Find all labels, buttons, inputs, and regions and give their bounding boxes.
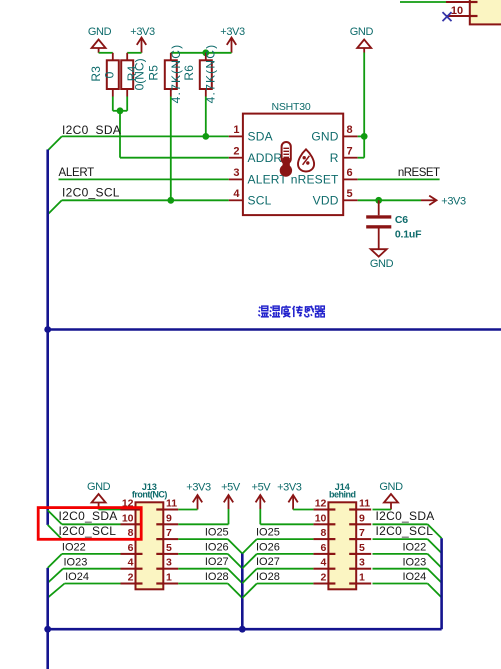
pin 5 VDD (right): [313, 188, 358, 208]
svg-text:11: 11: [166, 498, 177, 510]
svg-text:1: 1: [166, 572, 172, 584]
wire to top-right connector pin: [400, 1, 470, 3]
svg-text:10: 10: [451, 5, 463, 17]
svg-text:+5V: +5V: [252, 482, 272, 494]
bus vertical (left, lower): [46, 568, 49, 669]
svg-text:8: 8: [321, 527, 327, 539]
pin 2 ADDR (left): [229, 146, 283, 166]
wire IO24 J14 to right bus: [373, 584, 442, 598]
svg-text:C6: C6: [395, 214, 408, 226]
svg-text:IO22: IO22: [62, 542, 86, 554]
wire I2C0_SDA J14 to right bus: [373, 524, 442, 538]
note text 温湿度传感器: [258, 306, 325, 318]
power GND (top left, above R3): [88, 26, 112, 53]
svg-text:8: 8: [128, 527, 134, 539]
svg-text:+3V3: +3V3: [441, 196, 466, 208]
svg-text:IO27: IO27: [256, 556, 280, 568]
svg-text:1: 1: [359, 572, 365, 584]
junction R6 top: [202, 49, 209, 56]
wire I2C0_SCL to SCL pin 4: [48, 200, 229, 214]
wire IO26 J14 to center bus: [242, 554, 313, 569]
svg-text:2: 2: [128, 572, 134, 584]
svg-text:IO25: IO25: [256, 527, 280, 539]
svg-text:ADDR: ADDR: [248, 151, 283, 165]
svg-text:SCL: SCL: [248, 194, 272, 208]
svg-text:0(NC): 0(NC): [132, 58, 146, 90]
svg-text:+3V3: +3V3: [130, 26, 155, 38]
svg-text:NSHT30: NSHT30: [271, 101, 310, 113]
bus vertical (right): [440, 538, 443, 629]
svg-text:VDD: VDD: [313, 194, 339, 208]
svg-text:I2C0_SCL: I2C0_SCL: [62, 186, 120, 200]
wire I2C0_SDA to J13 pin 10: [48, 510, 121, 524]
svg-text:R: R: [330, 151, 339, 165]
svg-text:4: 4: [233, 188, 240, 200]
svg-text:+3V3: +3V3: [186, 482, 211, 494]
wire +3V3 to R4: [127, 52, 141, 54]
wire IO28 J14 to center bus: [242, 584, 313, 599]
svg-text:4.7K(NC): 4.7K(NC): [204, 44, 218, 104]
connector (top right, partial): [470, 0, 501, 24]
svg-text:1: 1: [233, 124, 239, 136]
power GND (above J13): [87, 481, 111, 510]
svg-text:0.1uF: 0.1uF: [395, 228, 422, 240]
svg-text:5: 5: [359, 542, 365, 554]
svg-text:SDA: SDA: [248, 130, 273, 144]
bus vertical (center): [241, 553, 244, 629]
svg-text:8: 8: [347, 124, 353, 136]
svg-text:+3V3: +3V3: [220, 26, 245, 38]
wire GND to J13 pin 12: [99, 509, 121, 511]
pin numbers J14: [315, 498, 371, 584]
svg-text:GND: GND: [379, 481, 403, 493]
power +3V3 (right of VDD): [421, 196, 466, 208]
junction R6/SDA: [202, 133, 209, 140]
wire VDD pin 5 to +3V3: [358, 199, 421, 201]
junction bottom left bus: [44, 626, 51, 633]
svg-text:R6: R6: [182, 65, 196, 81]
svg-text:10: 10: [122, 512, 134, 524]
svg-text:GND: GND: [311, 130, 338, 144]
svg-text:GND: GND: [370, 258, 394, 270]
bus horizontal (bottom): [48, 628, 442, 631]
svg-text:IO23: IO23: [402, 556, 426, 568]
svg-text:10: 10: [315, 512, 327, 524]
svg-text:IO24: IO24: [65, 571, 89, 583]
svg-text:IO22: IO22: [402, 542, 426, 554]
svg-text:I2C0_SCL: I2C0_SCL: [59, 524, 117, 538]
wire I2C0_SCL J14 to right bus: [373, 539, 442, 553]
svg-text:IO23: IO23: [64, 556, 88, 568]
svg-text:12: 12: [315, 498, 327, 510]
wire R3/R4 bottoms join: [113, 97, 127, 111]
wire IO22 to J13 pin 6: [48, 554, 121, 568]
power GND (below C6): [370, 249, 394, 270]
wire IO26 J13 to center bus: [178, 554, 242, 569]
svg-text:3: 3: [359, 557, 365, 569]
wire IO25 J14 to center bus: [242, 539, 313, 554]
svg-text:IO25: IO25: [205, 527, 229, 539]
svg-text:I2C0_SDA: I2C0_SDA: [59, 509, 118, 523]
wire J14 pin 10 to +5V: [260, 509, 313, 524]
svg-text:IO24: IO24: [402, 571, 426, 583]
svg-text:11: 11: [359, 498, 370, 510]
svg-text:3: 3: [166, 557, 172, 569]
svg-text:+5V: +5V: [221, 482, 241, 494]
pin 10 stub with label: [446, 5, 470, 17]
junction bus corner: [44, 326, 51, 333]
svg-text:IO27: IO27: [205, 556, 229, 568]
power +3V3 (above J14 pin 12): [277, 482, 302, 510]
wire J14 pin 11 to GND: [373, 509, 392, 511]
svg-text:9: 9: [359, 512, 365, 524]
svg-text:6: 6: [321, 542, 327, 554]
svg-text:GND: GND: [88, 26, 112, 38]
svg-text:R5: R5: [147, 65, 161, 81]
svg-text:4: 4: [321, 557, 327, 569]
power GND (above pin 8): [350, 26, 374, 53]
svg-text:4.7K(NC): 4.7K(NC): [169, 44, 183, 104]
svg-text:5: 5: [347, 188, 353, 200]
svg-text:I2C0_SDA: I2C0_SDA: [376, 509, 435, 523]
wire IO28 J13 to center bus: [178, 584, 242, 599]
power GND (above J14 pin 11): [379, 481, 403, 510]
svg-text:GND: GND: [87, 481, 111, 493]
wire J13 pin 9 to +5V: [178, 509, 228, 524]
resistor R6 4.7K(NC): [182, 44, 218, 104]
svg-text:I2C0_SCL: I2C0_SCL: [376, 524, 434, 538]
wire J13 pin 11 to +3V3: [178, 509, 197, 511]
pin 4 SCL (left): [229, 188, 272, 208]
junction pin 8: [361, 133, 368, 140]
thermometer icon inside NSHT30: [280, 142, 292, 177]
svg-text:9: 9: [166, 512, 172, 524]
power +3V3 (above R6): [220, 26, 245, 53]
svg-text:nRESET: nRESET: [398, 167, 440, 179]
svg-text:I2C0_SDA: I2C0_SDA: [62, 123, 121, 137]
wire junction to ADDR pin 2: [120, 111, 229, 158]
power +3V3 (above J13 pin 11): [186, 482, 211, 510]
pin 6 nRESET (right): [291, 167, 358, 187]
svg-text:R3: R3: [89, 66, 103, 82]
power +3V3 (above R4): [130, 26, 155, 53]
wire R5 bottom to SCL: [170, 97, 172, 201]
wire I2C0_SDA to SDA pin 1: [48, 136, 229, 150]
connector J13 front(NC): [121, 482, 179, 589]
pin 8 GND (right): [311, 124, 357, 144]
pin 1 SDA (left): [229, 124, 273, 144]
bus horizontal (middle of page): [48, 328, 501, 331]
pin 3 ALERT (left): [229, 167, 288, 187]
capacitor C6 0.1uF: [366, 200, 422, 249]
wire IO24 to J13 pin 2: [48, 584, 121, 598]
svg-text:IO28: IO28: [256, 571, 280, 583]
svg-text:IO26: IO26: [256, 541, 280, 553]
svg-text:7: 7: [359, 527, 365, 539]
junction bottom center bus: [239, 626, 246, 633]
wire I2C0_SCL to J13 pin 8: [48, 525, 121, 539]
wire ALERT to pin 3: [59, 178, 229, 180]
wire IO23 to J13 pin 4: [48, 569, 121, 583]
svg-text:ALERT: ALERT: [59, 167, 95, 179]
svg-text:0: 0: [102, 71, 116, 78]
junction R3/R4 bottom: [117, 107, 124, 114]
humidity droplet icon inside NSHT30: [298, 149, 314, 171]
wire J14 pin 12 to +3V3: [293, 509, 313, 511]
svg-text:+3V3: +3V3: [277, 482, 302, 494]
wire R6 bottom to SDA: [205, 97, 207, 137]
svg-text:2: 2: [321, 572, 327, 584]
svg-text:behind: behind: [329, 489, 356, 499]
svg-text:2: 2: [233, 146, 239, 158]
svg-text:4: 4: [128, 557, 134, 569]
junction VDD/C6: [375, 197, 382, 204]
svg-text:7: 7: [347, 146, 353, 158]
wire IO25 J13 to center bus: [178, 539, 242, 554]
wire GND to R3: [99, 52, 113, 54]
red highlight box: [38, 508, 141, 540]
svg-text:6: 6: [128, 542, 134, 554]
wire IO23 J14 to right bus: [373, 569, 442, 583]
svg-text:6: 6: [347, 167, 353, 179]
svg-text:nRESET: nRESET: [291, 173, 339, 187]
wire IO27 J13 to center bus: [178, 569, 242, 584]
wire R5/R6 tops to +3V3: [171, 52, 232, 54]
resistor R5 4.7K(NC): [147, 44, 183, 104]
resistor R3 0: [89, 53, 119, 97]
power +5V (above J13 pin 9): [221, 482, 241, 510]
pin numbers J13: [122, 498, 177, 584]
no-connect X on pin 10: [443, 12, 452, 21]
wire nRESET from pin 6: [358, 178, 440, 180]
bus vertical (left, upper): [46, 150, 49, 525]
svg-text:front(NC): front(NC): [132, 489, 167, 499]
svg-text:GND: GND: [350, 26, 374, 38]
connector J14 behind: [313, 482, 371, 589]
power +5V (above J14 pin 10): [252, 482, 272, 510]
svg-text:IO26: IO26: [205, 541, 229, 553]
svg-text:IO28: IO28: [205, 571, 229, 583]
wire IO27 J14 to center bus: [242, 569, 313, 584]
wire IO22 J14 to right bus: [373, 554, 442, 568]
svg-text:3: 3: [233, 167, 239, 179]
resistor R4 0(NC): [121, 53, 146, 97]
junction R5/SCL: [167, 197, 174, 204]
svg-text:5: 5: [166, 542, 172, 554]
IC U1 NSHT30: [243, 101, 343, 215]
pin 7 R (right): [330, 146, 358, 166]
wire pin 8 GND net: [358, 53, 365, 158]
svg-text:7: 7: [166, 527, 172, 539]
